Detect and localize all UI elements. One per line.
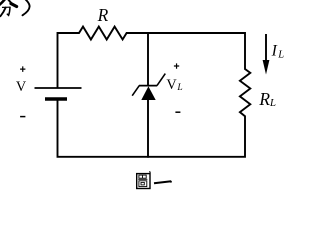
svg-text:L: L	[176, 83, 182, 93]
svg-text:L: L	[269, 97, 276, 109]
svg-text:R: R	[97, 5, 109, 25]
svg-text:V: V	[16, 79, 27, 95]
svg-text:L: L	[277, 50, 284, 61]
svg-text:R: R	[258, 89, 270, 109]
svg-text:V: V	[166, 77, 177, 93]
svg-text:I: I	[271, 42, 278, 59]
